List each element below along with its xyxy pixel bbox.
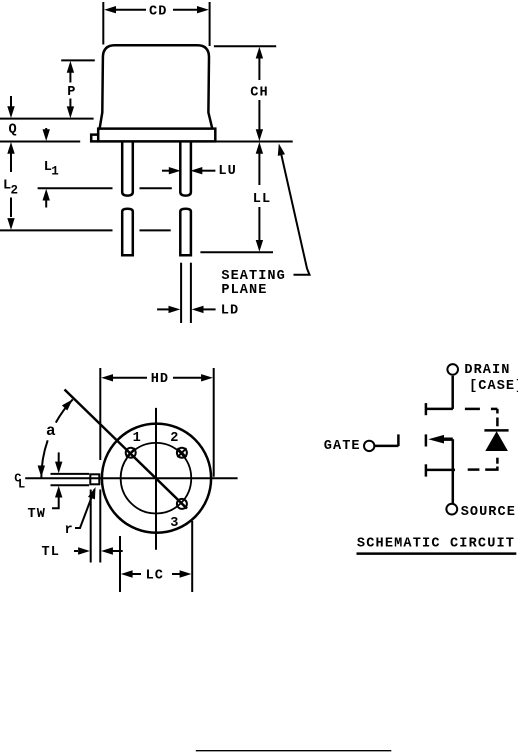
dimension L2 (0, 142, 171, 230)
diagonal index line (65, 390, 188, 509)
wire drain (451, 376, 454, 409)
svg-text:TL: TL (42, 545, 60, 560)
svg-text:CH: CH (250, 85, 268, 100)
dimension LL (200, 142, 273, 252)
dimension LD (157, 263, 239, 323)
can body outline (100, 45, 212, 128)
svg-text:SCHEMATIC CIRCUIT: SCHEMATIC CIRCUIT (357, 536, 515, 551)
svg-text:LC: LC (146, 568, 164, 583)
drain terminal (447, 363, 518, 394)
svg-text:SOURCE: SOURCE (461, 505, 516, 520)
svg-text:SEATING: SEATING (221, 269, 285, 284)
dimension LC (120, 521, 192, 592)
svg-text:HD: HD (151, 372, 169, 387)
lead 2 upper segment (180, 141, 191, 195)
svg-text:a: a (46, 422, 57, 440)
seating plane label and leader (221, 143, 309, 298)
pin 2 (170, 431, 187, 458)
dimension P (61, 60, 95, 118)
lead 1 upper segment (122, 141, 133, 195)
svg-text:Q: Q (9, 122, 18, 137)
page footer rule (196, 750, 391, 752)
source terminal (446, 504, 516, 521)
dimension Q (0, 96, 94, 142)
dimension CH (214, 46, 293, 141)
label schematic circuit (357, 536, 517, 553)
transistor Q1 MOSFET (426, 403, 455, 477)
vertical centerline (155, 408, 157, 550)
svg-text:LD: LD (221, 304, 239, 319)
svg-text:2: 2 (170, 431, 179, 446)
centerline symbol (14, 471, 25, 491)
svg-text:r: r (65, 523, 74, 538)
svg-text:P: P (67, 85, 76, 100)
svg-text:[CASE]: [CASE] (469, 379, 518, 394)
svg-text:DRAIN: DRAIN (464, 363, 510, 378)
lead 1 lower segment (122, 209, 133, 256)
svg-text:2: 2 (11, 184, 20, 198)
gate terminal (324, 434, 399, 453)
svg-text:PLANE: PLANE (221, 283, 267, 298)
flange tab side view (91, 135, 98, 142)
svg-text:GATE: GATE (324, 439, 361, 454)
dimension LU (162, 164, 237, 179)
index tab bottom view (90, 474, 99, 484)
outer circle (102, 424, 211, 533)
pin circle (121, 443, 192, 514)
svg-text:LU: LU (218, 164, 236, 179)
svg-text:1: 1 (51, 164, 60, 178)
dimension CD (103, 2, 209, 46)
svg-text:TW: TW (28, 507, 46, 522)
horizontal centerline (25, 477, 237, 479)
svg-text:L: L (18, 478, 25, 492)
dimension L1 (38, 128, 172, 208)
svg-text:CD: CD (149, 4, 167, 19)
dimension HD (100, 368, 213, 477)
wire source (452, 470, 455, 504)
can flange (98, 129, 215, 142)
svg-text:LL: LL (253, 192, 271, 207)
lead 2 lower segment (180, 209, 191, 256)
pin 3 (170, 499, 187, 531)
angle dimension a (38, 397, 76, 478)
dimension TL (42, 490, 123, 563)
dimension TW (28, 452, 90, 522)
body diode D1 (465, 409, 509, 470)
pin 1 (126, 431, 142, 458)
svg-text:1: 1 (133, 431, 142, 446)
radius label r (65, 486, 99, 538)
svg-text:3: 3 (170, 516, 179, 531)
